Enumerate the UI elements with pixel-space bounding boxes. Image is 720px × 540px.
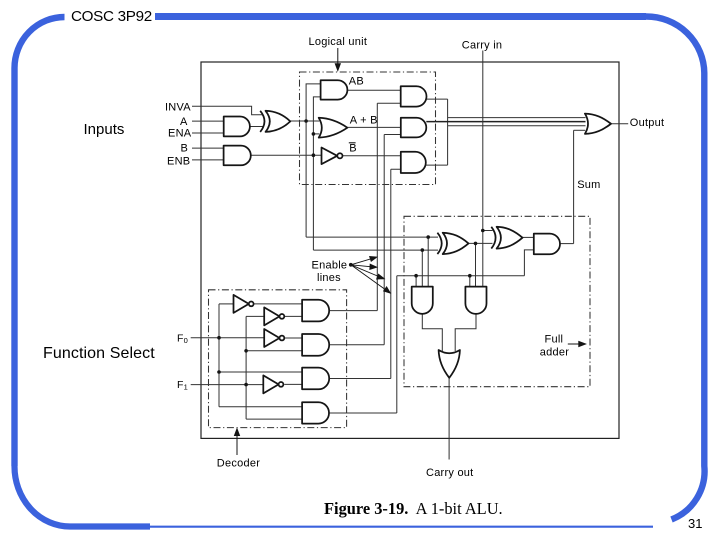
xor gate input stage bbox=[266, 111, 291, 132]
and gate decoder D1 bbox=[302, 300, 329, 322]
figure caption bbox=[324, 499, 503, 519]
frame left vertical + top-left corner arc bbox=[15, 17, 65, 466]
wire enable branch to left carry AND bbox=[415, 276, 417, 287]
wire INVA input bbox=[192, 106, 263, 115]
frame thin bottom rule bbox=[150, 526, 653, 528]
wire F1 to inverter N2 bbox=[246, 315, 264, 317]
wire F1 vertical bbox=[245, 316, 247, 419]
wire inverter N1 output bbox=[254, 303, 303, 305]
wire left carry AND output to carry OR bbox=[422, 314, 442, 351]
and gate AB bbox=[321, 80, 348, 99]
inverter N2 bbox=[264, 307, 279, 325]
wire carry out bbox=[448, 378, 450, 460]
xor gate FA1 bbox=[443, 233, 469, 254]
svg-text:AB: AB bbox=[349, 75, 364, 87]
wire B' tap to OR gate lower input bbox=[313, 133, 319, 135]
inverter N4 bbox=[263, 375, 278, 393]
svg-text:ENA: ENA bbox=[168, 127, 192, 139]
and gate decoder D3 bbox=[302, 368, 329, 390]
wire decoder AND4 output bbox=[329, 412, 397, 414]
svg-text:ENB: ENB bbox=[167, 155, 190, 167]
wire inverter N4 output bbox=[284, 383, 302, 385]
label Inputs bbox=[84, 121, 125, 138]
svg-text:lines: lines bbox=[317, 272, 341, 284]
overline of B-bar bbox=[349, 142, 356, 144]
label Function Select bbox=[43, 345, 155, 363]
and gate B-ENB bbox=[224, 146, 251, 166]
svg-text:INVA: INVA bbox=[165, 102, 191, 114]
wire node B' up to AB gate bbox=[313, 97, 320, 155]
inverter N3 bbox=[264, 329, 279, 347]
svg-text:F1: F1 bbox=[177, 379, 188, 392]
wire F0 to inverter N1 bbox=[219, 303, 234, 305]
xor gate FA2 bbox=[497, 227, 523, 249]
wire XOR1 output to XOR2 bbox=[469, 242, 493, 244]
svg-text:Logical unit: Logical unit bbox=[309, 36, 368, 48]
wire OR gate output to enable gate E2 bbox=[347, 126, 400, 128]
wire F1 to decoder AND4 bbox=[246, 418, 302, 420]
wire node B' line to inverter bbox=[251, 154, 322, 156]
wire node B' down bbox=[312, 155, 314, 250]
wire bus line 2 E2 output to output OR bbox=[426, 121, 585, 123]
wire bus line 3 to output OR bbox=[448, 125, 586, 127]
node F0 tap bbox=[217, 370, 221, 374]
wire F0 tap to decoder AND3 bbox=[219, 371, 302, 373]
wire enable vertical 1 bbox=[376, 103, 378, 310]
and gate carry right (vertical) bbox=[465, 287, 486, 314]
logical unit dashed box bbox=[300, 72, 436, 185]
svg-text:Decoder: Decoder bbox=[217, 458, 260, 470]
wire B' branch down to carry AND bbox=[421, 250, 423, 287]
wire enable vertical 4 bbox=[396, 276, 398, 413]
wire node B' to full adder XOR1 bbox=[313, 249, 438, 251]
wire decoder AND3 output bbox=[329, 378, 391, 380]
wire enable up to sum AND bbox=[524, 250, 533, 276]
arrows enable lines fan bbox=[349, 263, 352, 266]
node enable at left carry AND bbox=[414, 274, 418, 278]
svg-text:Carry in: Carry in bbox=[462, 39, 503, 51]
svg-text:A + B: A + B bbox=[350, 115, 378, 127]
svg-text:Output: Output bbox=[630, 117, 665, 129]
arrow logical unit pointer bbox=[337, 48, 339, 67]
wire decoder AND1 output bbox=[329, 310, 377, 312]
svg-text:Full: Full bbox=[545, 334, 564, 346]
and gate carry left (vertical) bbox=[412, 287, 433, 314]
inverter N1 bbox=[234, 295, 249, 313]
wire A xor B branch down bbox=[475, 243, 477, 286]
wire bus line 1 to output OR bbox=[448, 117, 586, 119]
wire full-adder enable line bbox=[397, 275, 525, 277]
node AxorB junction bbox=[474, 242, 478, 246]
wire AND-A output to XOR bbox=[250, 126, 264, 128]
wire XOR2 output to sum AND bbox=[523, 236, 534, 238]
wire E1 output bbox=[427, 98, 448, 100]
wire ENB input bbox=[192, 159, 224, 161]
frame top-right corner arc + right vertical bbox=[646, 16, 705, 519]
node A' junction bbox=[304, 119, 308, 123]
wire F0 vertical bbox=[218, 304, 220, 407]
wire B input bbox=[192, 147, 224, 149]
wire enable line 3 to E3 bbox=[391, 168, 401, 170]
or gate output bbox=[585, 114, 611, 134]
arrow decoder pointer bbox=[236, 434, 238, 456]
wire E3 output bbox=[426, 164, 448, 166]
wire E1-E3 joining vertical bbox=[447, 99, 449, 165]
wire node A' down bbox=[305, 121, 307, 237]
svg-text:Enable: Enable bbox=[312, 259, 348, 271]
node F1 entry bbox=[244, 383, 248, 387]
wire sum vertical bbox=[573, 130, 575, 243]
wire enable line 1 to E1 bbox=[377, 102, 400, 104]
wire carry-in vertical bbox=[482, 51, 484, 287]
and gate E2 bbox=[401, 118, 426, 138]
wire ALU output bbox=[611, 123, 628, 125]
or gate A+B bbox=[319, 118, 348, 138]
wire AB gate output to enable gate E1 bbox=[347, 89, 400, 91]
svg-text:F0: F0 bbox=[177, 332, 188, 345]
svg-text:A: A bbox=[180, 116, 188, 128]
svg-text:B: B bbox=[181, 142, 189, 154]
wire inverter N2 output bbox=[284, 315, 302, 317]
node enable at right carry AND bbox=[468, 274, 472, 278]
wire node A' to full adder XOR1 bbox=[306, 236, 438, 238]
node F1 tap bbox=[244, 349, 248, 353]
decoder dashed box bbox=[209, 290, 347, 428]
wire F1 input bbox=[191, 384, 264, 386]
wire enable branch to right carry AND bbox=[469, 276, 471, 287]
svg-text:Carry out: Carry out bbox=[426, 467, 474, 479]
and gate A-ENA bbox=[224, 117, 250, 137]
page number 31 bbox=[688, 516, 702, 531]
and gate E1 bbox=[401, 86, 427, 106]
wire F0 to decoder AND4 bbox=[219, 406, 302, 408]
wire node A' to OR gate bbox=[290, 120, 319, 122]
full adder dashed box bbox=[404, 216, 590, 386]
wire enable vertical 2 bbox=[383, 135, 385, 345]
wire inverter output to enable gate E3 bbox=[343, 155, 401, 157]
wire inverter N3 output bbox=[284, 337, 302, 339]
wire carry-in tap to XOR2 bbox=[483, 230, 493, 232]
svg-text:B: B bbox=[349, 143, 357, 155]
frame top bar bbox=[155, 13, 646, 20]
arrow full adder pointer bbox=[568, 343, 581, 345]
wire right carry AND output to carry OR bbox=[455, 314, 476, 351]
or gate carry out (vertical) bbox=[439, 350, 460, 378]
and gate sum enable bbox=[534, 234, 560, 255]
wire sum into output OR bbox=[574, 129, 586, 131]
node B' at XOR1 bbox=[421, 248, 425, 252]
node carry-in junction bbox=[481, 229, 485, 233]
node A' at XOR1 bbox=[426, 235, 430, 239]
wire A input bbox=[192, 120, 224, 122]
wire decoder AND2 output bbox=[329, 344, 384, 346]
frame bottom-left arc + thick bottom bar bbox=[14, 466, 150, 527]
wire sum AND output bbox=[560, 243, 574, 245]
wire A' branch down to carry AND bbox=[427, 237, 429, 287]
wire enable vertical 3 bbox=[390, 169, 392, 378]
wire enable line 2 to E2 bbox=[384, 134, 401, 136]
course title text bbox=[71, 8, 152, 25]
node B' at OR input bbox=[312, 132, 316, 136]
node F0 entry bbox=[217, 336, 221, 340]
and gate E3 bbox=[401, 152, 426, 173]
svg-text:Sum: Sum bbox=[577, 179, 600, 191]
svg-text:adder: adder bbox=[540, 347, 569, 359]
and gate decoder D4 bbox=[302, 402, 329, 423]
and gate decoder D2 bbox=[302, 334, 329, 356]
inverter B-bar bbox=[322, 148, 338, 165]
wire node A' up to AB gate bbox=[306, 84, 321, 121]
wire F1 tap to decoder AND2 bbox=[246, 350, 302, 352]
wire ENA input bbox=[192, 132, 224, 134]
node B' on B line bbox=[312, 153, 316, 157]
outer ALU box bbox=[201, 62, 619, 438]
wire F0 input bbox=[191, 337, 265, 339]
